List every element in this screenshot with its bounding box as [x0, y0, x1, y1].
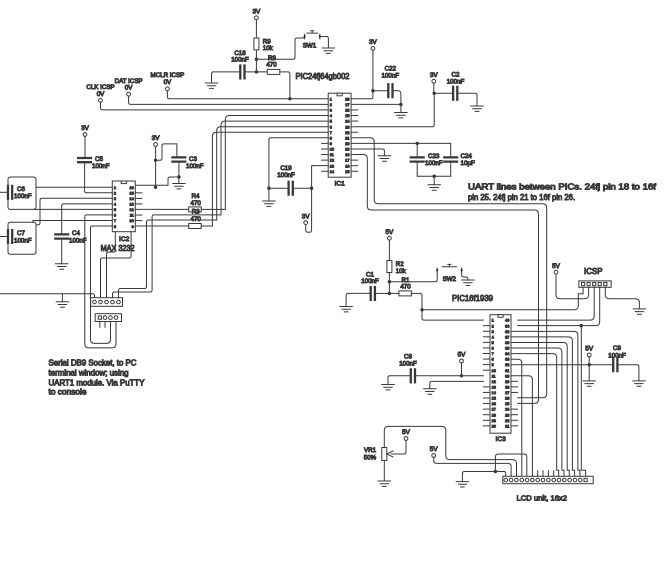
- wire R1 to node: [411, 293, 422, 309]
- svg-text:30: 30: [505, 374, 509, 378]
- wire VR1 to ground: [383, 461, 385, 482]
- wire IC3 pin38 to LCD pin15: [511, 331, 580, 476]
- ground IC1 pin19: [378, 156, 390, 161]
- resistor R8: [267, 69, 280, 74]
- wire CLK to IC1 pin3: [101, 102, 329, 110]
- ground SW2: [462, 280, 474, 285]
- svg-text:33: 33: [505, 358, 509, 362]
- svg-text:UART1 module. Via PuTTY: UART1 module. Via PuTTY: [49, 379, 146, 388]
- wire 5V to LCD pin2: [434, 457, 511, 476]
- svg-text:0V: 0V: [164, 79, 172, 86]
- wire C3 to IC2 pin16: [112, 177, 179, 185]
- svg-text:5: 5: [492, 341, 494, 345]
- wire to IC3 pin1: [422, 310, 483, 320]
- svg-text:100nF: 100nF: [277, 172, 295, 179]
- capacitor C2: [453, 87, 457, 100]
- svg-text:26: 26: [505, 397, 509, 401]
- wire bus to R4: [201, 208, 225, 210]
- op-amp U1 IC1 PIC24FJ64GB002: [322, 93, 358, 187]
- svg-text:40: 40: [505, 319, 509, 323]
- wire bus row to DB9 pin4: [113, 215, 222, 298]
- svg-text:23: 23: [505, 413, 509, 417]
- junction LCD ground: [494, 470, 497, 473]
- svg-text:10: 10: [492, 369, 496, 373]
- wire C7 loop: [8, 222, 36, 254]
- terminal 5V ICSP: [554, 270, 558, 274]
- wire LCD bare stubs: [538, 471, 554, 477]
- svg-text:MAX 3232: MAX 3232: [101, 244, 135, 253]
- svg-text:5V: 5V: [552, 263, 561, 270]
- wire UART pin21 to 16f pin26: [351, 138, 547, 398]
- resistor R4: [189, 207, 202, 212]
- junction C1/R1: [388, 292, 391, 295]
- wire R9 to node: [255, 50, 257, 72]
- svg-text:21: 21: [505, 424, 509, 428]
- wire node to LCD pin5: [495, 454, 526, 476]
- wire 3V to C19 node: [306, 188, 312, 232]
- wire 5V to ICSP pin2: [556, 274, 589, 299]
- junction C19 right: [310, 187, 313, 190]
- svg-text:C7: C7: [17, 230, 25, 237]
- ground C8: [382, 385, 394, 390]
- svg-text:14: 14: [129, 197, 133, 201]
- svg-text:3V: 3V: [81, 125, 90, 132]
- capacitor C18: [240, 66, 244, 79]
- wire SW1 to ground: [320, 37, 329, 49]
- wire IC3 pin36 to LCD pin13: [511, 343, 569, 477]
- svg-text:12: 12: [129, 208, 133, 212]
- junction MCLR/pin1: [288, 97, 291, 100]
- ground C4: [56, 264, 68, 269]
- svg-text:11: 11: [130, 214, 134, 218]
- svg-text:7: 7: [330, 131, 332, 135]
- junction C22/pin27: [399, 103, 402, 106]
- svg-text:24: 24: [345, 120, 349, 124]
- svg-text:8: 8: [330, 136, 332, 140]
- terminal 5V C9: [587, 353, 591, 357]
- capacitor C24: [444, 157, 457, 161]
- wire to C22: [373, 90, 388, 92]
- wire C6 to IC2 pin1: [36, 186, 112, 188]
- resistor R2: [387, 261, 392, 273]
- wire C3 to ground: [178, 177, 180, 184]
- svg-text:7: 7: [492, 352, 494, 356]
- svg-text:15: 15: [129, 191, 133, 195]
- svg-text:35: 35: [505, 347, 509, 351]
- wire IC3 pin33 to LCD pin4: [511, 359, 522, 476]
- svg-text:5V: 5V: [458, 352, 467, 359]
- wire IC1 pin28: [351, 91, 373, 99]
- wire R8 to MCLR net: [280, 72, 290, 99]
- svg-text:17: 17: [345, 159, 349, 163]
- ground 5V C9: [583, 381, 595, 386]
- svg-text:4: 4: [114, 203, 116, 207]
- capacitor C8: [411, 369, 415, 382]
- capacitor C5: [78, 158, 91, 162]
- wire C9 to ground: [617, 365, 639, 381]
- svg-text:13: 13: [492, 385, 496, 389]
- wire 3V to C5: [84, 136, 86, 158]
- capacitor C6: [8, 186, 12, 199]
- svg-text:IC1: IC1: [335, 180, 346, 187]
- svg-text:IC2: IC2: [119, 236, 130, 243]
- svg-text:C8: C8: [404, 353, 412, 360]
- wire ICSP pin5 to ground: [605, 287, 639, 309]
- svg-text:15: 15: [492, 397, 496, 401]
- wire C7 to IC2 pin3: [36, 198, 112, 225]
- svg-text:terminal window; using: terminal window; using: [49, 369, 129, 378]
- op-amp U2 IC2 MAX3232: [112, 181, 142, 243]
- svg-text:16: 16: [129, 186, 133, 190]
- switch SW1: [304, 31, 321, 39]
- wire C5 to IC2 pin2: [85, 162, 113, 193]
- wire 5V down: [461, 363, 463, 376]
- wire IC2 pin8 to DB9 inner: [91, 226, 113, 343]
- svg-text:18: 18: [492, 413, 496, 417]
- wire C1 to node: [375, 292, 390, 294]
- resistor R3: [189, 224, 202, 229]
- ground LCD: [456, 482, 468, 487]
- wire C6 left stub: [0, 191, 8, 193]
- svg-text:2: 2: [114, 191, 116, 195]
- wire C6 to IC2 pin5: [34, 208, 112, 210]
- svg-text:100nF: 100nF: [361, 278, 379, 285]
- potentiometer VR1: [382, 448, 387, 461]
- wire DB9 strip2 stubs: [100, 322, 105, 328]
- svg-text:7: 7: [114, 219, 116, 223]
- svg-text:PIC24fj64gb002: PIC24fj64gb002: [296, 72, 350, 81]
- junction 3V/C2: [433, 92, 436, 95]
- wire VR1 wiper arrow: [387, 451, 393, 457]
- svg-text:C4: C4: [72, 230, 80, 237]
- ground C19: [263, 201, 275, 206]
- svg-text:18: 18: [345, 153, 349, 157]
- connector LCD header: [503, 476, 593, 483]
- wire MCLR to IC1 pin1: [167, 91, 328, 99]
- junction C19 left: [267, 187, 270, 190]
- wire C23/C24 bottoms: [417, 162, 451, 177]
- svg-text:1: 1: [492, 319, 494, 323]
- wire IC1 pin19 to ground: [351, 149, 384, 156]
- wire R2 to node: [388, 273, 390, 294]
- junction C3 bottom: [177, 175, 180, 178]
- svg-text:19: 19: [492, 419, 496, 423]
- wire 5V down: [588, 357, 590, 365]
- svg-text:36: 36: [505, 341, 509, 345]
- svg-text:16: 16: [492, 402, 496, 406]
- svg-text:UART lines between PICs. 24fj: UART lines between PICs. 24fj pin 18 to …: [468, 183, 657, 192]
- svg-text:2: 2: [492, 324, 494, 328]
- svg-text:C9: C9: [613, 345, 621, 352]
- svg-text:25: 25: [345, 114, 349, 118]
- terminal 3V C19: [304, 221, 308, 225]
- junction 3V/C3: [154, 159, 157, 162]
- terminal 5V IC3: [460, 359, 464, 363]
- wire IC1 pin4 bus: [225, 116, 328, 210]
- svg-text:23: 23: [345, 125, 349, 129]
- wire IC3 pin37 to LCD pin14: [511, 337, 575, 476]
- connector DB9 strip1: [91, 298, 123, 307]
- wire to ground: [588, 365, 590, 381]
- svg-text:100nF: 100nF: [382, 72, 400, 79]
- svg-text:11: 11: [492, 374, 496, 378]
- svg-text:10: 10: [330, 148, 334, 152]
- wire C4 to ground: [61, 239, 63, 264]
- wire ground stem: [61, 294, 63, 302]
- svg-text:R3: R3: [192, 208, 200, 215]
- svg-text:100nF: 100nF: [14, 193, 32, 200]
- ground C22: [395, 113, 407, 118]
- svg-text:C3: C3: [189, 156, 197, 163]
- svg-text:5V: 5V: [402, 429, 411, 436]
- junction R1 output: [420, 308, 423, 311]
- capacitor C19: [289, 182, 293, 195]
- wire C19 to node: [293, 187, 312, 189]
- wire C3 bottom: [178, 162, 180, 177]
- svg-text:14: 14: [492, 391, 496, 395]
- ground C9: [633, 381, 645, 386]
- svg-text:29: 29: [505, 380, 509, 384]
- wire to ICSP pin1: [422, 287, 583, 310]
- junction 5V/C8: [460, 374, 463, 377]
- terminal 5V R2: [388, 236, 392, 240]
- svg-text:11: 11: [330, 153, 334, 157]
- svg-text:ICSP: ICSP: [584, 267, 603, 276]
- svg-text:6: 6: [114, 214, 116, 218]
- svg-text:3: 3: [114, 197, 116, 201]
- svg-text:C24: C24: [461, 153, 473, 160]
- terminal 3V C5: [83, 133, 87, 137]
- terminal 5V LCD: [432, 454, 436, 458]
- svg-text:100nF: 100nF: [425, 160, 443, 167]
- junction 3V/pin16 row: [154, 186, 157, 189]
- svg-text:470: 470: [266, 61, 277, 68]
- ground VR1: [378, 481, 390, 486]
- capacitor C7: [8, 230, 12, 243]
- svg-text:32: 32: [505, 363, 509, 367]
- svg-text:10k: 10k: [263, 45, 274, 52]
- wire node to SW1: [256, 37, 304, 60]
- ground ICSP: [633, 309, 645, 314]
- terminal MCLR ICSP: [166, 87, 170, 91]
- wire ICSP pin3 to IC3 pin40: [518, 287, 595, 320]
- wire bus row to DB9 pin5: [119, 220, 217, 298]
- svg-text:19: 19: [345, 148, 349, 152]
- svg-text:100nF: 100nF: [69, 237, 87, 244]
- op-amp U3 IC3 PIC16F1939: [483, 315, 517, 444]
- resistor R1: [399, 291, 412, 296]
- wire node to SW2: [389, 273, 437, 282]
- wire node to R1: [389, 292, 399, 294]
- svg-text:LCD unit, 16x2: LCD unit, 16x2: [517, 493, 568, 502]
- svg-text:14: 14: [330, 170, 334, 174]
- junction ICSP4/LCD16: [580, 324, 583, 327]
- connector DB9 strip2: [95, 314, 121, 322]
- wire IC2 pin6 to DB9 outer: [85, 215, 116, 348]
- svg-text:4: 4: [330, 114, 332, 118]
- wire IC1 pin6 bus: [217, 127, 329, 220]
- terminal 3V top: [255, 16, 259, 20]
- svg-text:5V: 5V: [585, 346, 594, 353]
- ground C23/C24: [428, 185, 440, 190]
- svg-text:5: 5: [330, 120, 332, 124]
- svg-text:0V: 0V: [97, 91, 105, 98]
- svg-text:100nF: 100nF: [186, 163, 204, 170]
- wire 3V to R9: [255, 20, 257, 38]
- wire VR1 top to LCD pin3: [384, 426, 516, 476]
- wire 3V down: [372, 50, 374, 90]
- svg-text:C23: C23: [428, 153, 440, 160]
- capacitor C9: [613, 358, 617, 371]
- svg-text:100nF: 100nF: [447, 78, 465, 85]
- svg-text:28: 28: [505, 385, 509, 389]
- ground IC3: [424, 389, 436, 394]
- svg-text:3: 3: [330, 109, 332, 113]
- svg-text:6: 6: [330, 125, 332, 129]
- svg-text:8: 8: [114, 225, 116, 229]
- wire C18 to R8: [245, 71, 268, 73]
- ground C3: [173, 184, 185, 189]
- svg-text:15: 15: [345, 170, 349, 174]
- wire 5V to R2: [388, 240, 390, 260]
- wire to IC3 pin11: [462, 375, 484, 377]
- wire C7 left stub: [0, 236, 8, 238]
- wire IC3 pin12 to ground: [430, 381, 484, 388]
- wire ICSP4 branch to LCD pin16: [581, 326, 585, 477]
- wire 3V to C3 top: [156, 144, 177, 160]
- svg-text:38: 38: [505, 330, 509, 334]
- svg-text:37: 37: [505, 335, 509, 339]
- svg-text:27: 27: [505, 391, 509, 395]
- svg-text:27: 27: [345, 103, 349, 107]
- svg-text:20: 20: [492, 424, 496, 428]
- svg-text:31: 31: [505, 369, 509, 373]
- svg-text:9: 9: [132, 225, 134, 229]
- svg-text:VR1: VR1: [364, 447, 377, 454]
- svg-text:24: 24: [505, 408, 509, 412]
- wire 3V down: [433, 83, 435, 93]
- svg-text:12: 12: [330, 159, 334, 163]
- svg-text:100nF: 100nF: [92, 163, 110, 170]
- wire to C2: [434, 92, 453, 94]
- svg-text:28: 28: [345, 97, 349, 101]
- svg-text:26: 26: [345, 109, 349, 113]
- wire IC1 pin5 bus: [221, 121, 328, 215]
- wire C1 to ground: [346, 293, 371, 306]
- svg-text:10k: 10k: [396, 268, 407, 275]
- wire IC3 pin35 to LCD pin12: [511, 348, 564, 476]
- terminal CLK ICSP: [99, 99, 103, 103]
- svg-text:3: 3: [492, 330, 494, 334]
- svg-text:3V: 3V: [302, 213, 311, 220]
- junction R2/SW2: [388, 280, 391, 283]
- svg-text:22: 22: [505, 419, 509, 423]
- wire C18 to ground: [212, 72, 241, 83]
- wire C6 loop: [8, 177, 36, 209]
- svg-text:5V: 5V: [385, 229, 394, 236]
- svg-text:5: 5: [114, 208, 116, 212]
- wire wiper to 5V: [391, 440, 406, 454]
- terminal 3V C3: [154, 143, 158, 147]
- junction 3V/C22: [371, 89, 374, 92]
- svg-text:6: 6: [492, 347, 494, 351]
- wire IC1 pin7 bus: [212, 132, 328, 226]
- terminal 5V VR1: [404, 437, 408, 441]
- svg-text:470: 470: [400, 284, 411, 291]
- wire UART pin18 to 16f pin25: [351, 155, 538, 404]
- ground C18: [205, 83, 217, 88]
- svg-text:17: 17: [492, 408, 496, 412]
- svg-text:1: 1: [330, 97, 332, 101]
- terminal 3V C2: [432, 79, 436, 83]
- svg-text:100nF: 100nF: [399, 361, 417, 368]
- ground C1: [340, 307, 352, 312]
- ground DB9: [56, 302, 68, 307]
- ground C2: [471, 106, 483, 111]
- wire to ground: [400, 105, 402, 113]
- wire IC1 pin20 to C24: [351, 143, 451, 157]
- terminal 3V C22: [371, 47, 375, 51]
- svg-text:10µF: 10µF: [461, 160, 475, 167]
- wire to C23: [416, 143, 418, 157]
- wire node to IC1 pin13: [312, 166, 329, 189]
- svg-text:3V: 3V: [252, 9, 261, 16]
- capacitor C3: [173, 157, 186, 161]
- wire bus to R3: [201, 225, 212, 227]
- junction C18/R8: [255, 70, 258, 73]
- junction R9/SW1: [255, 58, 258, 61]
- svg-text:C5: C5: [95, 156, 103, 163]
- svg-text:C6: C6: [17, 186, 25, 193]
- wire IC3 pin32 to C9: [511, 364, 613, 366]
- svg-text:25: 25: [505, 402, 509, 406]
- wire R3 to IC2 pin9: [135, 225, 188, 227]
- svg-text:100nF: 100nF: [14, 237, 32, 244]
- wire SW2 to ground: [462, 272, 468, 280]
- svg-text:2: 2: [330, 103, 332, 107]
- capacitor C4: [55, 234, 68, 238]
- svg-text:PIC16f1939: PIC16f1939: [452, 294, 493, 303]
- svg-text:SW2: SW2: [443, 276, 457, 283]
- svg-text:9: 9: [492, 363, 494, 367]
- svg-text:20: 20: [345, 142, 349, 146]
- svg-text:22: 22: [345, 131, 349, 135]
- svg-text:8: 8: [492, 358, 494, 362]
- wire DAT to IC1 pin2: [129, 96, 329, 104]
- svg-text:0V: 0V: [125, 85, 133, 92]
- wire C22 to ground node: [393, 91, 401, 105]
- svg-text:39: 39: [505, 324, 509, 328]
- wire R4 to IC2 pin12: [135, 208, 188, 210]
- svg-text:SW1: SW1: [303, 43, 317, 50]
- connector ICSP: [579, 281, 611, 287]
- capacitor C22: [388, 84, 392, 97]
- wire to ground: [433, 176, 435, 185]
- ground SW1: [322, 48, 334, 53]
- svg-text:10: 10: [129, 219, 133, 223]
- svg-text:13: 13: [330, 164, 334, 168]
- wire C2 to ground: [457, 93, 477, 106]
- svg-text:3V: 3V: [152, 135, 161, 142]
- terminal DAT ICSP: [127, 92, 131, 96]
- wire C8 to ground: [388, 376, 411, 385]
- wire ground row to DB9 pin1: [0, 294, 95, 298]
- svg-text:5V: 5V: [430, 446, 439, 453]
- wire IC1 pin23: [351, 93, 434, 126]
- wire IC3 pin34 to LCD pin11: [511, 354, 559, 477]
- capacitor C23: [411, 157, 424, 161]
- svg-text:50%: 50%: [364, 455, 377, 462]
